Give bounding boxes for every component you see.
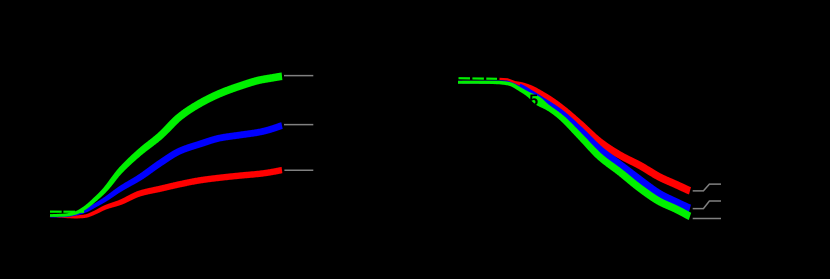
svg-text:5: 5 — [529, 92, 538, 109]
